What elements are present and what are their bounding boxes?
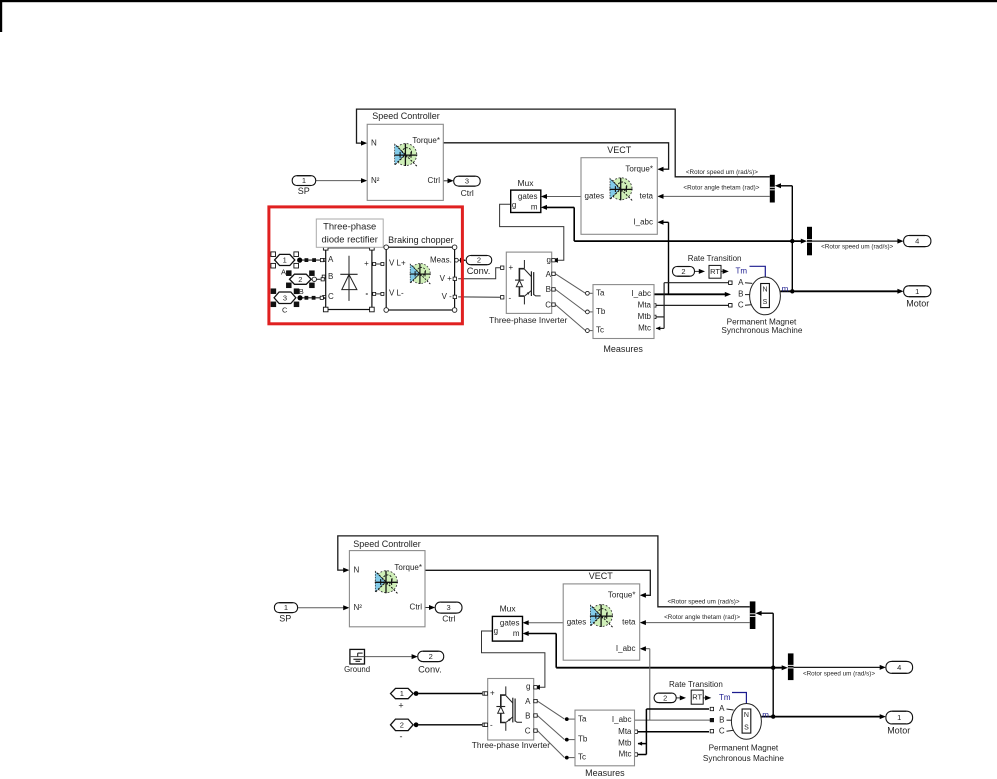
svg-text:2: 2: [681, 267, 685, 276]
svg-text:1: 1: [400, 689, 404, 698]
svg-text:SP: SP: [298, 186, 310, 196]
svg-text:Torque*: Torque*: [608, 590, 636, 599]
svg-text:gates: gates: [567, 618, 587, 627]
svg-text:<Rotor speed um (rad/s)>: <Rotor speed um (rad/s)>: [821, 244, 893, 251]
svg-text:Tc: Tc: [596, 326, 604, 335]
svg-text:N: N: [354, 566, 360, 575]
svg-text:Measures: Measures: [603, 344, 643, 354]
svg-text:Three-phase Inverter: Three-phase Inverter: [489, 315, 567, 325]
svg-text:Mtc: Mtc: [638, 324, 651, 333]
svg-text:Mux: Mux: [500, 603, 517, 613]
svg-text:g: g: [512, 201, 516, 210]
svg-text:Ta: Ta: [578, 714, 587, 723]
svg-text:Ta: Ta: [596, 288, 605, 297]
svg-text:B: B: [546, 285, 551, 294]
svg-text:1: 1: [897, 713, 901, 722]
svg-text:N: N: [762, 287, 767, 294]
svg-text:Permanent Magnet: Permanent Magnet: [709, 744, 779, 753]
svg-text:2: 2: [400, 720, 404, 729]
svg-text:B: B: [525, 712, 530, 721]
svg-text:gates: gates: [585, 192, 605, 201]
svg-text:Ground: Ground: [344, 665, 370, 674]
svg-text:+: +: [364, 259, 369, 268]
svg-text:Ctrl: Ctrl: [410, 603, 423, 612]
svg-text:Torque*: Torque*: [394, 563, 422, 572]
svg-text:C: C: [282, 305, 288, 314]
svg-text:Synchronous Machine: Synchronous Machine: [721, 326, 802, 335]
svg-text:B: B: [328, 272, 333, 281]
svg-text:VECT: VECT: [607, 145, 632, 155]
svg-text:Tm: Tm: [736, 267, 748, 276]
svg-text:N: N: [371, 139, 377, 148]
svg-text:diode rectifier: diode rectifier: [322, 233, 378, 244]
svg-text:Synchronous Machine: Synchronous Machine: [703, 754, 784, 763]
svg-text:RT: RT: [710, 267, 720, 276]
svg-text:1: 1: [283, 256, 287, 265]
svg-text:SP: SP: [279, 613, 291, 623]
svg-text:Tb: Tb: [578, 735, 588, 744]
svg-text:S: S: [763, 299, 768, 306]
svg-text:N: N: [744, 712, 749, 719]
svg-text:2: 2: [298, 275, 302, 284]
svg-text:<Rotor angle thetam (rad)>: <Rotor angle thetam (rad)>: [664, 614, 740, 621]
svg-text:1: 1: [284, 603, 288, 612]
svg-text:A: A: [525, 697, 531, 706]
svg-text:Rate Transition: Rate Transition: [688, 254, 742, 263]
svg-text:Mtc: Mtc: [619, 750, 632, 759]
svg-text:Mtb: Mtb: [638, 312, 652, 321]
svg-text:Permanent Magnet: Permanent Magnet: [727, 317, 797, 326]
svg-text:<Rotor speed um (rad/s)>: <Rotor speed um (rad/s)>: [667, 598, 739, 605]
svg-text:Speed Controller: Speed Controller: [353, 539, 421, 549]
svg-text:1: 1: [915, 287, 919, 296]
svg-text:V L-: V L-: [389, 289, 404, 298]
svg-text:gates: gates: [518, 192, 538, 201]
svg-text:3: 3: [465, 177, 469, 186]
svg-text:+: +: [490, 689, 495, 698]
svg-text:A: A: [719, 704, 725, 713]
svg-text:3: 3: [283, 293, 287, 302]
svg-text:C: C: [328, 292, 334, 301]
svg-text:VECT: VECT: [589, 571, 614, 581]
svg-text:C: C: [738, 300, 744, 309]
svg-text:Rate Transition: Rate Transition: [669, 680, 723, 689]
svg-text:Ctrl: Ctrl: [442, 613, 455, 623]
svg-text:Ctrl: Ctrl: [428, 176, 441, 185]
svg-text:Mux: Mux: [517, 178, 534, 188]
svg-text:C: C: [719, 726, 725, 735]
svg-text:3: 3: [447, 603, 451, 612]
svg-text:-: -: [490, 721, 493, 730]
svg-text:Braking chopper: Braking chopper: [388, 235, 454, 245]
svg-text:A: A: [546, 270, 552, 279]
svg-text:S: S: [744, 725, 749, 732]
svg-text:Torque*: Torque*: [625, 164, 653, 173]
svg-text:RT: RT: [692, 692, 702, 701]
svg-text:m: m: [531, 202, 538, 211]
svg-text:1: 1: [302, 176, 306, 185]
svg-text:Conv.: Conv.: [467, 266, 491, 276]
svg-text:m: m: [513, 629, 520, 638]
svg-text:N²: N²: [354, 603, 363, 612]
svg-text:V +: V +: [440, 274, 453, 283]
svg-text:<Rotor speed um (rad/s)>: <Rotor speed um (rad/s)>: [803, 670, 875, 677]
svg-text:Tb: Tb: [596, 307, 606, 316]
svg-text:Tc: Tc: [578, 753, 586, 762]
svg-text:Motor: Motor: [887, 726, 910, 736]
svg-text:-: -: [509, 294, 512, 303]
svg-text:N²: N²: [371, 176, 380, 185]
svg-text:V -: V -: [442, 292, 453, 301]
svg-text:A: A: [281, 267, 286, 276]
svg-text:<Rotor speed um (rad/s)>: <Rotor speed um (rad/s)>: [686, 169, 758, 176]
svg-text:m: m: [782, 285, 789, 294]
svg-text:Motor: Motor: [906, 298, 929, 308]
svg-text:I_abc: I_abc: [616, 644, 636, 653]
svg-text:A: A: [328, 255, 334, 264]
svg-text:B: B: [299, 287, 304, 296]
svg-text:Torque*: Torque*: [412, 136, 440, 145]
svg-text:g: g: [547, 255, 551, 264]
svg-text:I_abc: I_abc: [631, 289, 651, 298]
svg-text:Conv.: Conv.: [418, 664, 442, 674]
svg-text:g: g: [494, 627, 498, 636]
svg-text:gates: gates: [500, 618, 520, 627]
svg-text:<Rotor angle thetam (rad)>: <Rotor angle thetam (rad)>: [683, 185, 759, 192]
svg-text:teta: teta: [622, 618, 636, 627]
svg-text:Mtb: Mtb: [618, 739, 632, 748]
svg-text:Tm: Tm: [719, 693, 731, 702]
svg-text:I_abc: I_abc: [612, 715, 632, 724]
svg-text:-: -: [400, 731, 403, 741]
svg-text:4: 4: [897, 663, 901, 672]
svg-text:Measures: Measures: [585, 768, 625, 778]
svg-text:Three-phase Inverter: Three-phase Inverter: [472, 740, 550, 750]
svg-text:Ctrl: Ctrl: [461, 188, 474, 198]
svg-text:B: B: [738, 290, 743, 299]
svg-text:2: 2: [429, 652, 433, 661]
svg-text:+: +: [509, 263, 514, 272]
svg-text:4: 4: [915, 237, 919, 246]
svg-text:Three-phase: Three-phase: [323, 221, 376, 232]
svg-text:Meas.: Meas.: [430, 255, 452, 264]
svg-text:Mta: Mta: [618, 727, 632, 736]
svg-text:2: 2: [663, 693, 667, 702]
svg-text:+: +: [398, 701, 403, 711]
svg-text:I_abc: I_abc: [633, 217, 653, 226]
svg-text:m: m: [762, 710, 769, 719]
svg-text:g: g: [526, 682, 530, 691]
svg-text:Speed Controller: Speed Controller: [372, 111, 440, 121]
svg-text:Mta: Mta: [638, 301, 652, 310]
svg-text:B: B: [719, 715, 724, 724]
svg-text:teta: teta: [640, 192, 654, 201]
svg-text:A: A: [738, 278, 744, 287]
svg-text:C: C: [545, 300, 551, 309]
svg-text:V L+: V L+: [389, 259, 406, 268]
svg-text:2: 2: [477, 256, 481, 265]
svg-text:C: C: [525, 726, 531, 735]
